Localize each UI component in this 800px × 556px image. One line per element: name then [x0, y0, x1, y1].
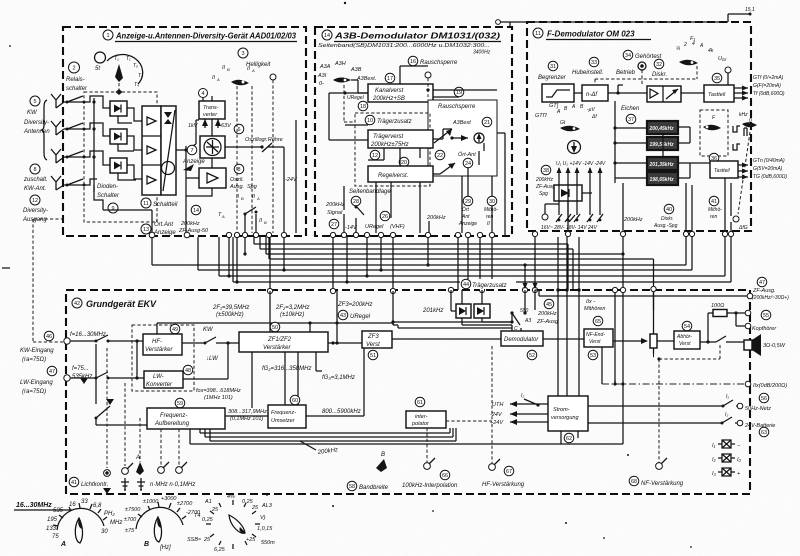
specks	[627, 454, 629, 456]
GT eye pointer	[560, 126, 580, 132]
svg-text:[Hz]: [Hz]	[159, 545, 171, 551]
ZF3 Verst block	[362, 331, 392, 348]
svg-text:A3B: A3B	[350, 67, 362, 73]
svg-text:1kV: 1kV	[188, 123, 199, 129]
svg-text:1,0,15: 1,0,15	[257, 526, 273, 532]
node circled 52	[527, 350, 537, 360]
svg-text:TG (0dB,600Ω): TG (0dB,600Ω)	[753, 174, 787, 180]
wire antenna T2 to relay	[56, 129, 84, 135]
svg-text:31: 31	[550, 64, 556, 70]
node circled 24	[463, 158, 473, 168]
wire kanalverst connections	[351, 66, 497, 97]
Tastteil block	[704, 85, 734, 102]
svg-text:50: 50	[272, 325, 278, 331]
node circled 2	[69, 62, 80, 73]
svg-text:ZF-Ausg: ZF-Ausg	[536, 319, 559, 325]
wire dashed diskr drop	[595, 66, 697, 85]
svg-text:12: 12	[372, 153, 378, 159]
svg-text:35: 35	[714, 76, 720, 82]
svg-text:II: II	[252, 194, 256, 200]
svg-text:800...5900kHz: 800...5900kHz	[322, 409, 361, 415]
svg-text:6: 6	[237, 127, 240, 133]
terminal 24V	[737, 420, 743, 426]
bandbreite pointer	[376, 459, 387, 472]
terminal kopfhoerer 1	[745, 310, 751, 316]
svg-text:Diskr.: Diskr.	[661, 216, 674, 222]
node circled 41	[709, 196, 719, 206]
wire bus L2	[260, 237, 573, 290]
junction diamond	[116, 89, 123, 95]
svg-text:Betrieb: Betrieb	[616, 70, 636, 76]
wire diode block connections	[545, 193, 592, 233]
wire bus L7	[219, 236, 725, 276]
svg-text:I₂: I₂	[521, 393, 524, 399]
switch before terminals	[245, 207, 256, 233]
node circled 5	[30, 96, 40, 106]
svg-text:18: 18	[360, 104, 366, 110]
svg-text:Umsetzer: Umsetzer	[271, 418, 296, 424]
svg-text:100Ω: 100Ω	[711, 303, 724, 309]
wire umsetzer to ZF3	[306, 348, 364, 416]
node circled 41b lichtkontr	[69, 477, 79, 487]
node circled 63	[759, 427, 769, 437]
svg-text:+3000: +3000	[161, 496, 177, 502]
node circled 32	[654, 59, 664, 69]
svg-text:65: 65	[595, 319, 601, 325]
svg-text:26: 26	[382, 214, 388, 220]
svg-text:Trans-: Trans-	[203, 105, 219, 111]
svg-text:5t: 5t	[95, 66, 100, 72]
svg-text:U₀₂: U₀₂	[718, 56, 727, 62]
wire vertical 270 into ZF12	[269, 291, 271, 332]
svg-text:50Hz-Netz: 50Hz-Netz	[745, 406, 771, 412]
svg-text:ZF3: ZF3	[367, 334, 379, 340]
svg-text:A: A	[699, 43, 704, 49]
speck	[344, 2, 346, 4]
terminal box3 left bottom	[542, 214, 548, 220]
helligkeit eye pointer	[231, 80, 249, 86]
svg-text:IIx -: IIx -	[586, 299, 595, 305]
node circled 34	[623, 50, 633, 60]
svg-text:A: A	[60, 541, 66, 548]
svg-text:8: 8	[237, 167, 240, 173]
wire vertical 393	[392, 291, 394, 325]
svg-text:63: 63	[761, 430, 767, 436]
discriminator eye dashed box	[700, 110, 728, 156]
svg-text:GTΠ: GTΠ	[535, 113, 547, 119]
svg-text:0-: 0-	[319, 81, 324, 87]
svg-text:U₁ U₂ +14V -14V -24V: U₁ U₂ +14V -14V -24V	[556, 161, 606, 167]
svg-text:37: 37	[628, 117, 634, 123]
pulse glyphs	[733, 126, 740, 150]
wire kanalverst left down	[329, 93, 368, 140]
svg-text:B: B	[227, 67, 230, 72]
svg-text:Trägerzusatz: Trägerzusatz	[377, 119, 412, 125]
wire dashed abhoer bottom	[654, 344, 721, 359]
wire filter feed vertical	[615, 101, 647, 183]
svg-text:Antennen: Antennen	[23, 129, 50, 135]
wire antenna T1 to relay	[56, 102, 84, 108]
svg-text:2F₁=39,5MHz: 2F₁=39,5MHz	[212, 305, 249, 311]
svg-text:ΔfG: ΔfG	[738, 225, 748, 231]
svg-text:AL3: AL3	[261, 503, 273, 509]
svg-text:1: 1	[106, 33, 109, 39]
svg-text:f=75...: f=75...	[72, 366, 89, 372]
svg-text:Verst: Verst	[589, 339, 601, 345]
node circled 19	[454, 87, 464, 97]
terminals box2 bottom	[330, 232, 335, 237]
arrow glyph meter	[183, 164, 194, 171]
switch seitenband	[356, 206, 364, 228]
node circled 54	[682, 321, 692, 331]
svg-text:Verst: Verst	[679, 341, 691, 347]
node circled 4	[199, 89, 208, 98]
svg-text:Anzeige: Anzeige	[458, 221, 477, 227]
terminal Helligkeit	[270, 74, 276, 80]
svg-text:27: 27	[331, 222, 337, 228]
svg-text:-24V: -24V	[490, 412, 503, 418]
node circled 49	[170, 324, 180, 334]
n-delta-f block	[582, 85, 608, 101]
svg-text:Oszillogr.Röhre: Oszillogr.Röhre	[245, 137, 283, 143]
svg-text:Anzeige-u.Antennen-Diversity-G: Anzeige-u.Antennen-Diversity-Gerät AAD01…	[115, 32, 296, 41]
svg-text:59: 59	[177, 401, 183, 407]
svg-text:Konverter: Konverter	[146, 382, 173, 388]
wire box2 terminal drops	[333, 237, 492, 291]
knob B pointer teardrop	[154, 517, 161, 542]
dashed enclosure HF LW	[132, 325, 194, 391]
terminals box3 bottom	[532, 231, 537, 236]
svg-text:(0,1MHz 101): (0,1MHz 101)	[230, 416, 263, 422]
wire LW input with switch	[70, 372, 144, 378]
svg-text:polator: polator	[411, 421, 430, 427]
svg-text:Anzeige: Anzeige	[153, 230, 176, 236]
svg-text:Diversity-: Diversity-	[23, 208, 48, 214]
svg-text:Aufbereitung: Aufbereitung	[154, 421, 190, 427]
svg-text:63V: 63V	[221, 123, 232, 129]
filter block 199,55kHz	[647, 137, 678, 150]
svg-text:T₂: T₂	[114, 56, 119, 62]
node circled 12b	[370, 150, 380, 160]
wire begrenzer chain	[574, 85, 647, 93]
svg-text:Eichen: Eichen	[621, 106, 640, 112]
svg-text:9: 9	[111, 206, 114, 212]
node circled 47b	[47, 366, 57, 376]
svg-text:3: 3	[241, 51, 244, 57]
wire traegerverst regelverst links	[368, 129, 452, 166]
arrowheads at edge crossing	[523, 283, 538, 289]
svg-text:-μV: -μV	[587, 107, 595, 113]
terminal open 3	[176, 467, 183, 474]
svg-text:68: 68	[631, 479, 637, 485]
svg-text:Tastteil: Tastteil	[708, 92, 726, 98]
node circled 29	[463, 196, 473, 206]
node circled 38	[541, 165, 551, 175]
Rauschsperre unit rect	[428, 100, 497, 176]
svg-text:T4: T4	[194, 513, 200, 519]
svg-text:(ra=75Ω): (ra=75Ω)	[22, 389, 46, 395]
node circled 50	[270, 322, 280, 332]
svg-text:42: 42	[74, 301, 80, 307]
chassis symbol 1	[121, 478, 129, 490]
svg-text:198,65kHz: 198,65kHz	[650, 177, 675, 183]
svg-text:A3Bext: A3Bext	[452, 120, 471, 126]
potentiometer vertical	[650, 334, 657, 348]
node circled 31 begrenzer	[548, 61, 558, 71]
switch slashes supply	[556, 214, 603, 222]
wire 24V line	[588, 417, 737, 423]
svg-text:KW: KW	[27, 110, 38, 116]
node circled 22	[435, 150, 445, 160]
terminal open 1	[122, 468, 129, 475]
svg-text:Rauschsperre: Rauschsperre	[438, 104, 476, 110]
node circled 1	[103, 30, 113, 40]
node circled 53	[588, 350, 598, 360]
svg-text:32: 32	[656, 62, 662, 68]
svg-text:550m: 550m	[261, 540, 275, 546]
svg-text:A: A	[216, 77, 220, 82]
antenna T1	[51, 94, 61, 108]
svg-text:2F₂=3,2MHz: 2F₂=3,2MHz	[275, 305, 309, 311]
svg-text:±7500: ±7500	[125, 507, 141, 513]
wire supply arrows left	[510, 404, 548, 422]
node circled 8b	[234, 164, 244, 174]
Kanalverst block	[368, 84, 433, 102]
svg-text:LW-: LW-	[153, 374, 164, 380]
wire tastteil2 outputs	[738, 165, 748, 177]
wire 50Hz line	[588, 400, 738, 406]
svg-text:Strom-: Strom-	[553, 407, 570, 413]
svg-text:ZF1/ZF2: ZF1/ZF2	[267, 337, 292, 343]
terminal mith	[733, 216, 739, 222]
resistor 100 Ohm	[713, 310, 727, 317]
svg-text:13: 13	[143, 227, 149, 233]
wire bus L8	[233, 236, 731, 282]
wire box1 long drops	[229, 237, 284, 291]
svg-text:A3B-Demodulator DM1031/(032): A3B-Demodulator DM1031/(032)	[334, 32, 501, 41]
svg-text:Abhör-: Abhör-	[676, 334, 692, 340]
svg-text:A3I: A3I	[317, 73, 327, 79]
wire box3 power drops to EKV	[558, 237, 579, 396]
svg-text:B: B	[144, 541, 149, 548]
node circled 33	[589, 57, 599, 67]
antenna T3	[51, 149, 61, 163]
knob C pointer teardrop	[229, 515, 245, 533]
svg-text:Trägerverst: Trägerverst	[373, 134, 404, 140]
svg-text:200kHz: 200kHz	[535, 177, 553, 183]
svg-text:I₀: I₀	[737, 457, 742, 463]
wire box1 right vertical	[225, 120, 296, 233]
node circled 68	[629, 476, 639, 486]
svg-text:GTf (0/+2mA): GTf (0/+2mA)	[753, 75, 784, 81]
wire pot to abhoer	[657, 340, 674, 342]
unit box U-OM023 dashed frame	[527, 22, 751, 231]
node circled 12	[30, 195, 40, 205]
wire dashed rauschsperre	[427, 78, 429, 97]
unit box U-DM1031 dashed frame	[315, 27, 512, 236]
node circled 10	[365, 115, 375, 125]
wire diodes to amplifier block	[118, 108, 142, 180]
relay bus vertical	[93, 98, 95, 192]
svg-text:A: A	[135, 455, 140, 461]
svg-text:A: A	[256, 196, 260, 201]
svg-text:fG₃=3,1MHz: fG₃=3,1MHz	[322, 375, 355, 381]
terminal near tastteil	[725, 67, 731, 73]
svg-text:Ört.Ant: Ört.Ant	[154, 221, 173, 228]
wire bus L6	[198, 236, 692, 270]
svg-text:0,25: 0,25	[202, 517, 214, 523]
transverter block	[199, 101, 225, 119]
svg-text:n-Δf: n-Δf	[586, 92, 598, 98]
svg-text:60: 60	[292, 398, 298, 404]
svg-text:NF-Verstärkung: NF-Verstärkung	[641, 481, 684, 487]
node circled 18	[358, 101, 368, 111]
svg-text:A: A	[221, 214, 225, 219]
svg-text:verter: verter	[203, 112, 218, 118]
svg-text:40: 40	[666, 207, 672, 213]
node circled 61	[415, 397, 425, 407]
knob A ticks	[53, 503, 107, 526]
ground triangle 2	[80, 378, 88, 384]
svg-text:fG₂=316...358MHz: fG₂=316...358MHz	[262, 366, 311, 372]
switch at regelverst out	[433, 163, 455, 174]
antenna T2	[51, 121, 61, 135]
svg-text:Mithören: Mithören	[584, 306, 605, 312]
svg-text:+25: +25	[246, 537, 256, 543]
antenna T4	[51, 176, 61, 190]
svg-text:A3A: A3A	[319, 64, 331, 70]
svg-text:-24V: -24V	[285, 177, 298, 183]
diode switch D1	[110, 101, 127, 116]
Regelverst block	[368, 166, 433, 182]
wire relay out bottom	[94, 192, 152, 232]
terminal KW input	[64, 338, 70, 344]
terminal ZF-Ausg right	[747, 293, 753, 299]
svg-text:2: 2	[683, 42, 687, 48]
svg-text:Frequenz-: Frequenz-	[271, 410, 296, 416]
svg-text:48: 48	[185, 368, 191, 374]
node circled 37	[626, 114, 636, 124]
svg-text:62: 62	[566, 436, 572, 442]
node circled 67	[504, 466, 514, 476]
svg-text:199,55kHz: 199,55kHz	[650, 142, 675, 148]
svg-text:308...317,9MHz: 308...317,9MHz	[228, 409, 267, 415]
Frequenz-Umsetzer block	[268, 405, 306, 428]
amplifier block A1 three channels	[142, 106, 161, 195]
svg-text:Grundgerät EKV: Grundgerät EKV	[86, 299, 157, 309]
node circled 9	[108, 203, 118, 213]
svg-text:fos=398...618MHz: fos=398...618MHz	[196, 388, 241, 394]
svg-text:12: 12	[32, 198, 38, 204]
node circled 51	[368, 350, 378, 360]
wire box3 misc drops	[525, 237, 654, 444]
svg-text:11: 11	[143, 201, 149, 207]
svg-text:(1MHz 101): (1MHz 101)	[204, 395, 233, 401]
svg-text:Hubeinstell.: Hubeinstell.	[572, 70, 603, 76]
svg-text:Mithö-: Mithö-	[484, 207, 498, 213]
node circled 45	[544, 299, 554, 309]
svg-text:SSB≈: SSB≈	[187, 537, 201, 543]
node circled 21	[482, 117, 492, 127]
wire supply rails verticals	[559, 168, 600, 215]
svg-text:Seitenbandlage: Seitenbandlage	[349, 189, 391, 195]
svg-text:25: 25	[251, 505, 259, 511]
svg-text:↓LW: ↓LW	[206, 356, 219, 362]
wire abhoer out resistor speaker	[700, 313, 746, 342]
svg-text:30: 30	[101, 529, 108, 535]
terminals box1 bottom	[149, 232, 155, 238]
svg-text:UTH: UTH	[492, 402, 503, 408]
svg-text:43: 43	[340, 313, 346, 319]
svg-text:6,8: 6,8	[93, 503, 102, 509]
svg-text:16: 16	[69, 502, 76, 508]
brace antennas group	[41, 100, 47, 160]
node circled 7	[187, 145, 197, 155]
node circled 42	[72, 298, 82, 308]
wire demod switch	[512, 290, 535, 331]
Frequenz-Aufbereitung block	[147, 408, 225, 429]
svg-text:Helligkeit: Helligkeit	[246, 62, 271, 68]
svg-text:61: 61	[417, 400, 423, 406]
svg-text:URegel: URegel	[347, 95, 365, 101]
knob B ticks	[138, 502, 186, 519]
svg-text:Seitenband(SB)DM1031:200...600: Seitenband(SB)DM1031:200...6000Hz u.DM10…	[318, 43, 490, 49]
node circled 65	[593, 316, 603, 326]
terminal LW input	[64, 375, 70, 381]
svg-text:55: 55	[763, 313, 769, 319]
wire KW to LW split	[136, 341, 138, 378]
svg-text:5: 5	[33, 99, 36, 105]
knob pointer A small	[136, 462, 144, 475]
svg-text:A3H: A3H	[334, 61, 346, 67]
svg-text:Lichtkontr.: Lichtkontr.	[81, 482, 108, 488]
svg-text:200kHz±75Hz: 200kHz±75Hz	[370, 142, 409, 148]
knob A pointer teardrop	[75, 518, 82, 543]
svg-text:KW-Eingang: KW-Eingang	[20, 348, 54, 354]
svg-text:16: 16	[410, 59, 416, 65]
Stromversorgung block	[548, 396, 588, 431]
svg-text:GTn (0/40mA): GTn (0/40mA)	[753, 158, 785, 164]
svg-text:7: 7	[190, 148, 193, 154]
svg-text:Ausgang: Ausgang	[22, 217, 47, 223]
svg-text:Frequenz-: Frequenz-	[160, 413, 187, 419]
wire dashed mode selector drop	[344, 85, 355, 122]
wire traeger blocks out	[462, 318, 512, 325]
wire aufbereitung to umsetzer	[225, 415, 268, 417]
svg-text:3Ω-0,5W: 3Ω-0,5W	[763, 343, 786, 349]
svg-text:HF-Verstärkung: HF-Verstärkung	[482, 482, 525, 488]
wire feedback bus nest	[190, 428, 623, 444]
svg-text:10: 10	[367, 118, 373, 124]
svg-text:II: II	[222, 65, 226, 71]
wire bus L5	[152, 236, 686, 265]
wire top link box2 to box3	[496, 20, 501, 25]
wire ZF12 to ZF3	[328, 342, 362, 344]
svg-text:Verstärker: Verstärker	[263, 345, 291, 351]
speaker symbol	[744, 340, 752, 350]
svg-text:URegel: URegel	[350, 314, 371, 320]
EKV top edge terminals	[267, 288, 272, 293]
Abhoer-Verst block	[674, 331, 700, 349]
svg-text:11: 11	[535, 31, 541, 37]
svg-text:A1: A1	[204, 499, 212, 505]
svg-text:75: 75	[52, 534, 59, 540]
svg-text:195: 195	[47, 517, 58, 523]
svg-text:49: 49	[172, 327, 178, 333]
terminal open 2	[158, 467, 165, 474]
wire dashed demod feedback	[446, 346, 492, 421]
filter block 200,45kHz	[647, 121, 678, 134]
